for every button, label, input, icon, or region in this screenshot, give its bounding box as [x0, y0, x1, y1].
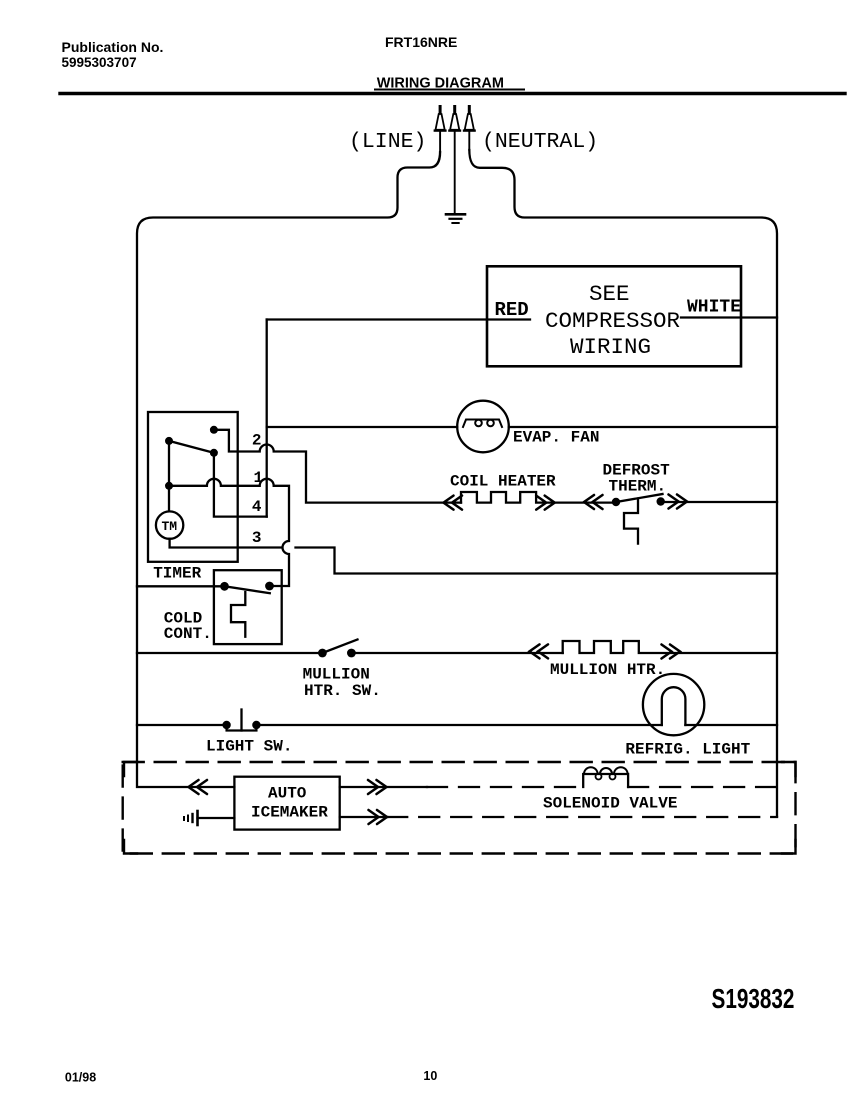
svg-text:10: 10 [423, 1069, 437, 1083]
svg-text:LIGHT SW.: LIGHT SW. [206, 738, 292, 756]
svg-text:3: 3 [252, 529, 262, 547]
svg-text:WHITE: WHITE [687, 298, 741, 318]
svg-text:S193832: S193832 [712, 984, 795, 1015]
svg-text:WIRING: WIRING [570, 334, 651, 360]
svg-text:WIRING DIAGRAM: WIRING DIAGRAM [377, 76, 504, 92]
svg-text:2: 2 [252, 431, 262, 449]
svg-text:THERM.: THERM. [609, 477, 667, 495]
svg-text:TM: TM [162, 519, 178, 534]
svg-text:MULLION HTR.: MULLION HTR. [550, 661, 665, 679]
svg-text:1: 1 [254, 469, 264, 487]
svg-text:HTR. SW.: HTR. SW. [304, 682, 381, 700]
svg-text:CONT.: CONT. [164, 625, 212, 643]
svg-text:(LINE): (LINE) [349, 130, 426, 154]
svg-text:COMPRESSOR: COMPRESSOR [545, 308, 680, 334]
svg-text:4: 4 [252, 498, 262, 516]
svg-text:SOLENOID VALVE: SOLENOID VALVE [543, 794, 677, 812]
svg-text:TIMER: TIMER [153, 565, 201, 583]
svg-text:FRT16NRE: FRT16NRE [385, 34, 457, 50]
svg-text:AUTO: AUTO [268, 785, 307, 803]
svg-text:(NEUTRAL): (NEUTRAL) [482, 130, 598, 154]
svg-text:REFRIG. LIGHT: REFRIG. LIGHT [625, 740, 750, 758]
svg-text:ICEMAKER: ICEMAKER [251, 804, 328, 822]
svg-text:SEE: SEE [589, 281, 630, 307]
svg-text:RED: RED [495, 299, 529, 321]
svg-text:01/98: 01/98 [65, 1071, 96, 1085]
svg-text:MULLION: MULLION [303, 665, 370, 683]
svg-text:COIL HEATER: COIL HEATER [450, 473, 556, 491]
svg-text:EVAP. FAN: EVAP. FAN [513, 429, 599, 447]
svg-text:5995303707: 5995303707 [62, 55, 137, 70]
svg-text:Publication No.: Publication No. [62, 39, 164, 55]
